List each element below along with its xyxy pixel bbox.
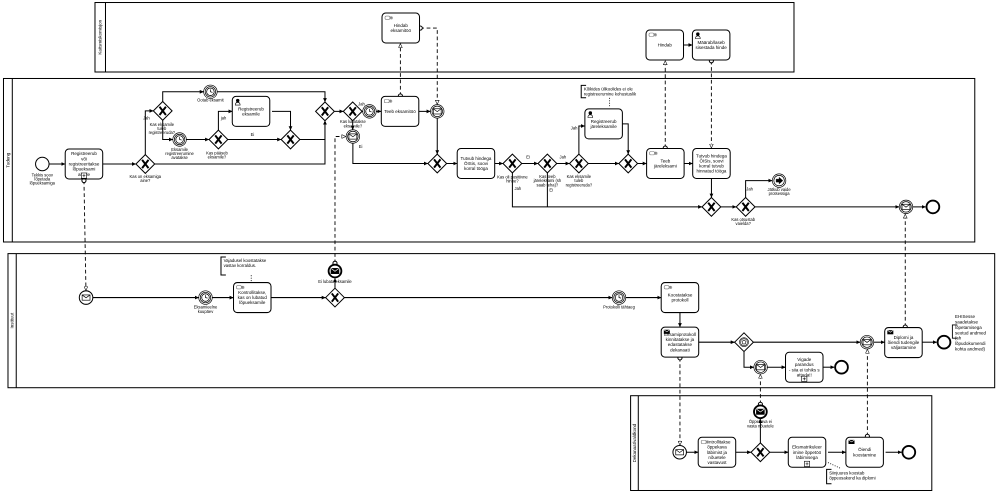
svg-text:Määrab/laseb: Määrab/laseb [698,40,726,45]
svg-text:Tudeng: Tudeng [5,152,10,168]
svg-text:Jah: Jah [571,125,578,130]
svg-text:Diplomi ja: Diplomi ja [894,335,914,340]
svg-text:eksamile?: eksamile? [208,155,227,160]
svg-text:Registreerub: Registreerub [71,151,97,156]
svg-text:Teeb: Teeb [660,158,670,163]
svg-text:vaielda?: vaielda? [736,221,752,226]
svg-text:hinne?: hinne? [506,179,519,184]
svg-text:õppekava: õppekava [707,445,727,450]
svg-text:saab teha)?: saab teha)? [537,182,559,187]
svg-text:Ei: Ei [359,144,363,149]
svg-text:Registreerub: Registreerub [591,119,617,124]
svg-text:Ei lubata eksamile: Ei lubata eksamile [318,279,352,284]
svg-text:aine?: aine? [140,178,151,183]
svg-text:läbimisega: läbimisega [796,455,818,460]
svg-text:lõpueksami: lõpueksami [73,167,96,172]
svg-text:dekanaati: dekanaati [670,347,690,352]
svg-text:Jah: Jah [560,155,567,160]
svg-text:lõpudokumendi: lõpudokumendi [955,341,986,346]
svg-text:ÕISis, soovi: ÕISis, soovi [464,160,488,166]
svg-text:Vigade: Vigade [797,357,811,362]
svg-text:Dekanaat/valdkond: Dekanaat/valdkond [632,423,637,462]
svg-text:Instituut: Instituut [10,312,15,329]
svg-text:Ei: Ei [549,187,553,192]
svg-text:Hindab: Hindab [394,23,409,28]
svg-text:järeleksami: järeleksami [653,164,677,169]
svg-text:protokoll: protokoll [671,298,688,303]
svg-text:Hindab: Hindab [658,43,673,48]
svg-text:lõpetamisega: lõpetamisega [955,325,982,330]
svg-text:õppeosakond ka diplomi: õppeosakond ka diplomi [829,475,875,480]
svg-text:- siia ei tohiks s: - siia ei tohiks s [789,367,821,372]
svg-text:Teeb eksamitöö: Teeb eksamitöö [384,109,416,114]
svg-text:sisestada hinde: sisestada hinde [696,45,728,50]
svg-text:ÕISis, soovi: ÕISis, soovi [699,157,723,163]
svg-text:Siinjuures koostab: Siinjuures koostab [829,470,865,475]
svg-text:saadetakse: saadetakse [955,320,979,325]
svg-text:Õiendi: Õiendi [858,446,871,452]
svg-text:nõuetele: nõuetele [708,455,726,460]
svg-text:parandus: parandus [795,362,815,367]
svg-text:hinnatud tööga: hinnatud tööga [697,169,727,174]
svg-text:Ei: Ei [251,132,255,137]
svg-text:Kaitsmiskomisjon: Kaitsmiskomisjon [98,19,103,54]
svg-text:Eksmatrikuleer: Eksmatrikuleer [792,445,822,450]
svg-text:eksamitöö: eksamitöö [391,28,412,33]
svg-text:kas on lubatud: kas on lubatud [238,295,268,300]
svg-text:imine õppetöö: imine õppetöö [793,450,822,455]
svg-text:registreeritakse: registreeritakse [69,161,100,166]
svg-text:koostamine: koostamine [853,452,877,457]
svg-text:väljastamine: väljastamine [891,345,917,350]
svg-text:läbimist ja: läbimist ja [707,450,728,455]
svg-text:vastav korraldus.: vastav korraldus. [224,263,256,268]
svg-text:seotud andmed: seotud andmed [955,330,987,335]
svg-text:Koostatakse: Koostatakse [668,292,693,297]
svg-text:järeleksamile: järeleksamile [590,124,618,129]
svg-text:(sh: (sh [955,336,962,341]
svg-text:Jah: Jah [358,101,365,106]
svg-text:Kontrollitakse,: Kontrollitakse, [238,290,266,295]
svg-text:Tutvub hindega: Tutvub hindega [461,156,492,161]
svg-text:registreeruda?: registreeruda? [149,130,176,135]
svg-text:EHISesse: EHISesse [955,314,976,319]
svg-text:vasta nõuetele: vasta nõuetele [747,423,774,428]
svg-text:Protokolli tähtaeg: Protokolli tähtaeg [603,305,635,310]
svg-text:registreerumine kohustuslik: registreerumine kohustuslik [584,91,637,96]
svg-text:eksamile?: eksamile? [344,123,363,128]
svg-text:protsessiga: protsessiga [769,191,791,196]
svg-text:Vajadusel koostatakse: Vajadusel koostatakse [224,258,267,263]
svg-text:registreeruda?: registreeruda? [566,182,593,187]
svg-text:Jah: Jah [515,186,522,191]
svg-text:lõpueksamiga: lõpueksamiga [30,181,56,186]
svg-text:kohta andmed): kohta andmed) [955,346,986,351]
svg-text:jah: jah [220,116,227,121]
svg-text:kuupäev: kuupäev [198,309,214,314]
svg-text:Ootab eksamit: Ootab eksamit [197,98,224,103]
svg-text:Ei: Ei [526,155,530,160]
svg-text:korral tutvub: korral tutvub [699,164,724,169]
svg-text:õiendi tudengile: õiendi tudengile [888,340,920,345]
svg-text:kinnitatakse ja: kinnitatakse ja [666,337,695,342]
svg-text:vastavust: vastavust [707,460,727,465]
svg-text:Registreerub: Registreerub [238,106,264,111]
svg-text:korral tööga: korral tööga [464,166,488,171]
svg-text:Jah: Jah [143,115,150,120]
svg-text:Jah: Jah [746,187,753,192]
svg-text:lõpueksamile: lõpueksamile [239,300,266,305]
svg-text:või: või [81,156,87,161]
svg-text:eksamile: eksamile [242,111,260,116]
svg-text:edastatakse: edastatakse [668,342,693,347]
svg-text:Tutvub hindega: Tutvub hindega [696,153,727,158]
svg-text:avatakse: avatakse [171,155,188,160]
svg-text:Kõikides ülikoolides ei ole: Kõikides ülikoolides ei ole [584,86,634,91]
